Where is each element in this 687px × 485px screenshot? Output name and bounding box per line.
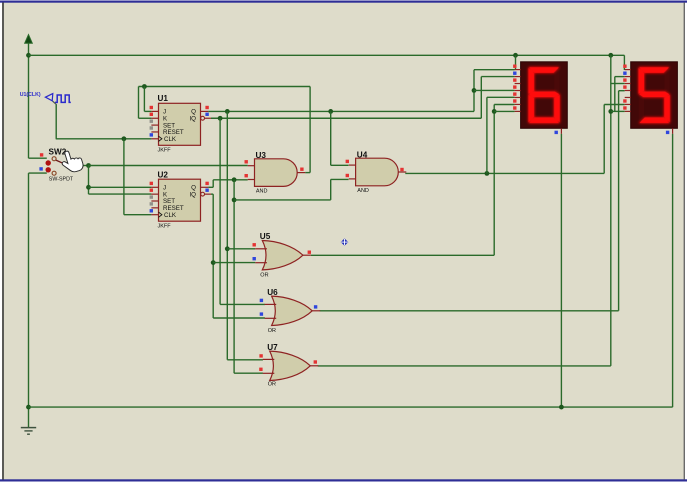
wire pole to U3.IN1 [89,165,248,167]
wire U1.Q output run [208,110,474,112]
wire clock to U1.CLK [56,138,152,140]
AND gate U4 label [357,151,368,160]
7-segment display 1 (digit 6) [521,62,568,129]
junction U1.Q to display1 pin4 [472,88,477,93]
wire U6.OUT run [320,310,619,312]
wire U4.IN2 riser [331,179,349,200]
AND gate U3 label [256,151,267,160]
AND gate U3 output square [300,168,303,171]
junction U1.J tap [142,84,147,89]
label AND under U4 [357,188,369,194]
wire U1.IQ output run [211,117,481,119]
ground symbol [21,428,36,435]
OR gate U7 input squares [259,354,263,371]
border frame bottom [0,479,687,481]
clock generator waveform [55,95,71,102]
junction clock split [122,136,127,141]
junction U1.Q column [225,109,230,114]
wire to U6.IN2 [213,317,265,319]
junction U1.IQ column [218,116,223,121]
7-segment display 2 state squares [623,65,626,110]
wire U1.IQ riser at display1 [480,77,482,119]
7-segment display 2 common square [666,131,669,134]
wire clock to U2.CLK [124,214,151,216]
AND gate U4 output square [400,168,403,171]
wire to U7.IN1 [227,359,263,361]
wire U1.Q column down [226,111,228,359]
OR gate U7 output square [314,360,317,363]
svg-text:OR: OR [268,382,276,388]
7-segment display 1 state squares [513,65,516,110]
junction U1.Q to U5.IN1 [225,246,230,251]
junction U4.OUT to display1 pin5 [485,171,490,176]
wire switch top throw [29,157,47,159]
wire U3.OUT up-left rail y=86.5 [139,86,311,88]
wire top rail y=55 [29,54,625,56]
power terminal (up arrow) top-left [25,35,33,44]
origin marker (blue crosshair) [341,238,349,245]
svg-text:JKFF: JKFF [158,148,172,154]
clock generator U1(CLK) label [20,92,41,98]
wire to U5.IN2 [213,262,255,264]
svg-text:OR: OR [268,328,276,334]
switch SW2 contacts [46,157,67,176]
wire pole drop to U2 J/K [88,166,90,195]
wire to display1 pin7 [494,110,514,112]
OR gate U7 [263,351,319,380]
svg-text:CLK: CLK [164,136,177,143]
wire corner top rail to display2 pin1 [623,55,625,70]
wire U3.OUT stub run [305,172,310,174]
junction U1.Q to U4.IN1 [328,109,333,114]
wire to U7.IN2 [234,372,263,374]
wire drop to display1 pin1 [515,55,517,70]
svg-text:U5: U5 [260,232,271,241]
junction U2.Q to U4.IN2 rail [232,198,237,203]
wire riser to display1 pin5 [487,97,515,173]
flip-flop U2 (JKFF) [150,179,211,221]
wire U1.Q riser at display1 [473,70,475,112]
wire U2.IQ jog [211,193,213,195]
border frame top [0,1,687,3]
wire to U2.K [89,193,152,195]
clock generator flag [45,94,52,101]
junction U5.OUT to display1 pin7 [492,109,497,114]
label OR under U7 [268,382,276,388]
wire to display2 pin2 [615,76,625,78]
OR gate U6 input squares [260,299,263,316]
junction trunk/top rail [26,53,31,58]
wire bottom rail y=407 [29,406,673,408]
OR gate U5 input squares [253,243,256,260]
wire to U5.IN1 [227,248,255,250]
wire U4.IN2 rail [234,199,331,201]
OR gate U7 label [267,343,278,352]
AND gate U3 [248,159,306,187]
wire switch pole [76,165,89,167]
label OR under U6 [268,328,276,334]
svg-text:U1: U1 [158,94,169,103]
svg-text:CLK: CLK [164,212,177,219]
OR gate U6 [265,296,321,325]
label JKFF under U1 [158,148,172,154]
label OR under U5 [260,272,268,278]
AND gate U3 input squares [245,160,248,177]
svg-text:OR: OR [260,272,268,278]
wire switch bottom throw [29,172,47,174]
switch SW2 state squares [39,153,43,170]
junction U2.Q column [232,177,237,182]
svg-text:SW-SPDT: SW-SPDT [49,177,74,183]
border frame left [2,3,4,480]
wire to display2 pin4 [619,90,625,92]
wire to display1 pin6 [494,104,514,106]
switch SW2 label [49,148,67,157]
svg-text:IQ: IQ [189,115,196,122]
label JKFF under U2 [158,223,172,229]
wire U2.Q jog [208,180,213,188]
svg-text:AND: AND [357,188,369,194]
junction display1 common/bottom rail [559,405,564,410]
label SW-SPDT [49,177,74,183]
flip-flop U1 label [158,94,169,103]
flip-flop U2 label [158,171,169,180]
hand cursor [59,148,84,175]
wire clock source drop [52,101,56,139]
OR gate U5 [255,241,311,270]
wire to display1 pin1 [474,69,515,71]
junction switch pole node [86,163,91,168]
wire U5.OUT run [311,254,494,256]
wire power arrow down to trunk [28,43,30,158]
wire U2.Q to U3.IN2 [213,179,248,181]
7-segment display 1 common pin [560,128,562,134]
wire clock drop to U2.CLK [123,139,125,215]
wire drop to U1.K [139,87,152,119]
AND gate U4 input squares [346,160,349,178]
junction display2 pin7 [608,109,613,114]
wire U5.OUT riser [493,105,495,256]
junction top rail to display1 pin1 [513,53,518,58]
label AND under U3 [256,189,268,195]
wire U4.OUT run [405,172,604,174]
7-segment display 1 pin stubs [515,70,521,112]
wire U2.IQ column down [212,194,214,318]
wire to U6.IN1 [220,303,265,305]
wire left trunk to ground [28,173,30,427]
OR gate U6 label [267,288,278,297]
wire display2 pin2 riser [614,77,616,112]
wire drop to U1.J [144,87,151,112]
OR gate U5 label [260,232,271,241]
7-segment display 1 common square [555,131,558,134]
wire U4.IN1 drop [331,111,349,165]
wire to display1 pin2 [481,76,514,78]
junction pole to U2.J [86,185,91,190]
svg-text:AND: AND [256,189,268,195]
junction U2.IQ to U5.IN2 [211,260,216,265]
wire display2 common down to bottom rail [672,134,674,407]
OR gate U6 output square [314,305,317,308]
7-segment display 2 pin stubs [625,70,631,112]
svg-text:U1(CLK): U1(CLK) [20,92,41,98]
wire U7/trunk column [610,55,612,366]
AND gate U4 [349,158,407,186]
wire to display1 pin4 [474,89,515,91]
junction top rail to display2 column [608,53,613,58]
svg-text:U2: U2 [158,171,169,180]
wire to display2 pin7 [611,110,625,112]
flip-flop U1 (JKFF) [150,103,211,145]
wire U7.OUT run [318,365,611,367]
junction bottom rail at ground [26,405,31,410]
7-segment display 2 common pin [672,128,674,134]
wire U3.OUT riser [309,87,311,173]
7-segment display 2 (digit 5) [631,62,678,129]
svg-text:IQ: IQ [189,191,196,198]
wire U1.IQ column down [219,118,221,304]
wire riser to display2 pin6 [604,105,625,174]
wire U2.Q column down [233,180,235,373]
wire display1 common down to bottom rail [560,134,562,407]
wire to U2.J [89,186,152,188]
border frame right [684,3,685,480]
svg-text:JKFF: JKFF [158,223,172,229]
wire to display2 pin3 [611,83,625,85]
OR gate U5 output square [308,251,311,254]
svg-text:SW2: SW2 [49,148,67,157]
wire U6.OUT riser [618,91,620,311]
